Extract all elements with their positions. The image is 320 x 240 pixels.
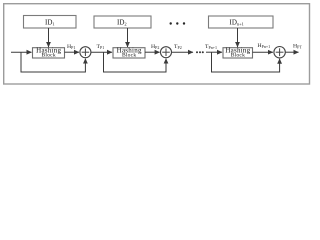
svg-text:Block: Block [122,53,136,59]
svg-text:TPn+1: TPn+1 [205,44,217,50]
svg-text:HPn+1: HPn+1 [258,43,271,49]
svg-text:TP1: TP1 [97,44,105,50]
svg-text:Block: Block [231,53,245,59]
svg-text:HPT: HPT [293,43,302,49]
svg-text:TP2: TP2 [174,44,182,50]
svg-text:HP1: HP1 [67,44,75,50]
svg-text:HP2: HP2 [151,44,159,50]
svg-text:Block: Block [42,53,56,59]
